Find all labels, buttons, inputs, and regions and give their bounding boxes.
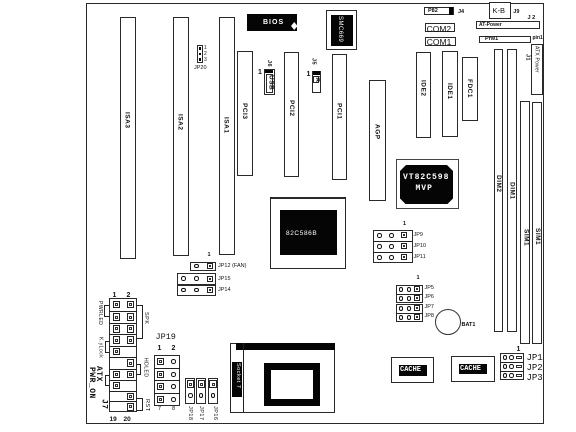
IR connector J5 xyxy=(310,58,316,65)
pin 1 label of JP1 xyxy=(517,346,521,353)
PCI2 slot xyxy=(284,52,299,177)
SMC669 chip xyxy=(326,10,357,50)
pin1 label xyxy=(533,36,543,41)
AGP slot xyxy=(369,80,386,201)
JP18 jumper xyxy=(185,378,195,405)
socket 7 inner ring xyxy=(264,363,320,406)
PCI3 slot xyxy=(237,51,253,176)
DIM1 slot xyxy=(507,49,517,332)
Socket 7 xyxy=(230,343,335,413)
J9 label xyxy=(513,10,519,16)
J7 pins xyxy=(113,301,121,309)
CACHE chip right xyxy=(451,356,495,382)
jumper JP5 xyxy=(399,287,404,292)
pin 1 label of JP9 xyxy=(403,222,406,228)
PWRLED label xyxy=(97,301,102,325)
JP19 block xyxy=(156,333,176,342)
JP9 JP10 JP11 outline xyxy=(373,230,413,263)
PCI1 slot xyxy=(332,54,348,180)
JP5 JP6 outline xyxy=(396,285,424,303)
IDE1 slot xyxy=(442,51,459,137)
IDE2 slot xyxy=(416,52,432,138)
ISA1 slot xyxy=(219,17,235,255)
SPK bracket + label xyxy=(142,305,143,339)
jumper JP8 xyxy=(399,315,404,320)
J2 label xyxy=(528,16,536,22)
AT-Power box xyxy=(476,21,540,29)
P82 box xyxy=(424,7,454,15)
JP7 JP8 outline xyxy=(396,304,424,322)
JP1 JP2 JP3 outline xyxy=(500,353,524,380)
CACHE chip left xyxy=(391,357,435,383)
jumper JP7 xyxy=(399,306,404,311)
jumper JP3 xyxy=(503,373,508,378)
J7 front panel header xyxy=(113,292,117,299)
K.yLock label xyxy=(98,337,103,358)
ATX bracket xyxy=(105,375,106,387)
JP16 jumper xyxy=(208,378,218,405)
JP12 (FAN) jumper xyxy=(208,253,211,259)
BIOS chip xyxy=(247,14,297,32)
FDC1 slot xyxy=(462,57,478,121)
JP14 jumper xyxy=(177,285,216,296)
SIM1 slot a xyxy=(520,101,530,344)
JP20 jumper xyxy=(197,45,203,63)
J4 label xyxy=(458,10,464,16)
pin 1 label of JP5 xyxy=(417,276,420,282)
J7 label xyxy=(99,399,107,410)
Prw1 box xyxy=(479,36,532,44)
BAT1 battery xyxy=(435,309,461,335)
ISA2 slot xyxy=(173,17,189,256)
jumper JP1 xyxy=(503,355,508,360)
COM2 box xyxy=(425,23,455,32)
jumper JP6 xyxy=(399,296,404,301)
HDLED bracket + label xyxy=(140,364,141,376)
jumper JP10 xyxy=(377,244,382,249)
USB connector J6 xyxy=(265,60,271,67)
COM1 box xyxy=(425,37,456,46)
ATX Power connector xyxy=(531,44,544,95)
jumper JP11 xyxy=(377,255,382,260)
RST bracket + label xyxy=(142,398,143,411)
JP17 jumper xyxy=(196,378,206,405)
jumper JP9 xyxy=(377,233,382,238)
DIM2 slot xyxy=(494,49,504,332)
K-B box xyxy=(489,2,511,19)
jumper JP2 xyxy=(503,364,508,369)
JP15 jumper xyxy=(177,273,216,285)
VT82C598 MVP chip U1 xyxy=(396,159,459,209)
J1 label xyxy=(524,54,530,61)
board outline xyxy=(86,3,544,424)
82C586B chip U2 xyxy=(270,197,346,269)
PWR_ON label xyxy=(87,367,95,399)
ATX label xyxy=(94,366,102,382)
SIM1 slot b xyxy=(532,102,542,344)
ISA3 slot xyxy=(120,17,136,259)
